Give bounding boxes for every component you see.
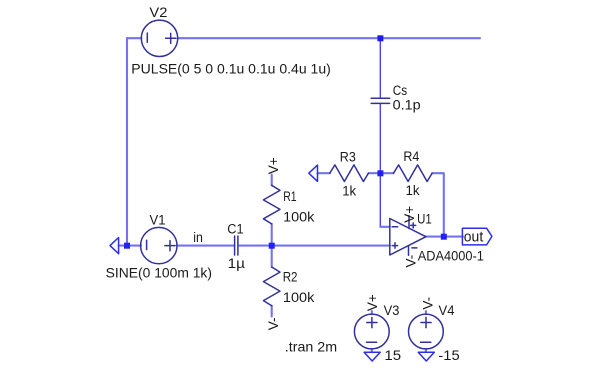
svg-text:R2: R2 — [283, 269, 298, 284]
wire C1 to middle node and op-amp non-inverting input — [239, 245, 390, 247]
svg-text:15: 15 — [384, 348, 401, 364]
wire op-amp V+ power stub — [408, 216, 410, 229]
wire V4 bottom stub to ground — [425, 349, 427, 352]
svg-text:.tran 2m: .tran 2m — [285, 338, 337, 354]
svg-text:SINE(0 100m 1k): SINE(0 100m 1k) — [106, 266, 212, 281]
wire input port to V1 minus terminal — [119, 245, 141, 247]
voltage source V3 — [354, 314, 389, 349]
junction node C1/R1/R2 — [269, 243, 275, 249]
svg-text:out: out — [464, 228, 484, 245]
resistor R3 — [330, 165, 369, 182]
svg-text:0.1p: 0.1p — [393, 98, 421, 113]
wire into op-amp inverting input — [380, 226, 390, 228]
wire Cs bottom through R3/R4 node down to op-amp inverting input — [379, 104, 381, 227]
svg-text:ADA4000-1: ADA4000-1 — [418, 249, 484, 264]
svg-text:100k: 100k — [283, 290, 315, 305]
svg-text:V+: V+ — [402, 206, 417, 223]
resistor R4 — [394, 165, 433, 182]
svg-text:R3: R3 — [340, 149, 356, 164]
resistor R2 — [263, 267, 280, 306]
junction node R3/R4 — [377, 170, 383, 176]
wire V4 top stub — [425, 311, 427, 314]
svg-text:100k: 100k — [283, 209, 314, 224]
svg-text:1k: 1k — [406, 183, 420, 198]
wire R1 top stub — [271, 175, 273, 186]
svg-text:in: in — [193, 230, 203, 245]
junction node at V1 / input port — [124, 243, 130, 249]
junction node at top rail and Cs — [377, 35, 383, 41]
wire op-amp output to node and out port — [426, 236, 463, 238]
svg-text:V-: V- — [404, 255, 419, 268]
svg-text:V+: V+ — [266, 157, 281, 174]
ground below V3 — [364, 352, 380, 361]
svg-text:V4: V4 — [439, 303, 455, 318]
wire R4 right to op-amp output node — [432, 173, 444, 236]
voltage source V4 — [409, 314, 444, 349]
capacitor Cs — [371, 98, 389, 103]
op-amp U1 — [390, 219, 426, 256]
wire top rail from V2 to dangling end — [178, 37, 480, 39]
svg-text:1k: 1k — [342, 184, 356, 199]
voltage source V2 — [141, 20, 177, 56]
wire top rail down to Cs — [379, 38, 381, 98]
wire V2 left stub — [127, 37, 141, 39]
junction node op-amp output — [441, 234, 447, 240]
svg-text:V+: V+ — [365, 294, 380, 311]
wire R1 bottom stub to node — [271, 224, 273, 246]
svg-text:V3: V3 — [384, 303, 400, 318]
svg-text:V2: V2 — [149, 5, 167, 20]
svg-text:R4: R4 — [403, 149, 419, 164]
wire R3 left stub from port — [318, 172, 330, 174]
wire V1 plus to C1 (net in) — [177, 245, 234, 247]
voltage source V1 — [141, 227, 177, 263]
wire R4 left stub from node — [380, 172, 393, 174]
wire V3 top stub — [371, 311, 373, 314]
input port flag at V1 node — [110, 238, 119, 254]
wire R3 right stub to node — [368, 172, 380, 174]
svg-text:1µ: 1µ — [228, 256, 246, 271]
svg-text:V-: V- — [266, 317, 281, 330]
wire node to R2 top — [271, 246, 273, 267]
svg-text:PULSE(0 5 0 0.1u 0.1u 0.4u 1u): PULSE(0 5 0 0.1u 0.1u 0.4u 1u) — [131, 61, 330, 76]
svg-text:C1: C1 — [227, 222, 243, 237]
svg-text:V-: V- — [421, 297, 436, 310]
svg-text:R1: R1 — [283, 189, 296, 204]
resistor R1 — [263, 185, 280, 224]
wire R2 bottom stub — [271, 306, 273, 317]
svg-text:Cs: Cs — [393, 83, 408, 98]
input port flag at R3 — [309, 165, 318, 181]
capacitor C1 — [235, 236, 238, 255]
svg-text:U1: U1 — [417, 212, 432, 227]
wire V3 bottom stub to ground — [371, 349, 373, 352]
output port out — [462, 228, 492, 245]
svg-text:-15: -15 — [438, 348, 459, 364]
wire left vertical rail from V2 down to V1 node — [126, 38, 128, 245]
wire op-amp V- power stub — [408, 246, 410, 256]
svg-text:V1: V1 — [150, 213, 166, 228]
ground below V4 — [418, 352, 434, 361]
